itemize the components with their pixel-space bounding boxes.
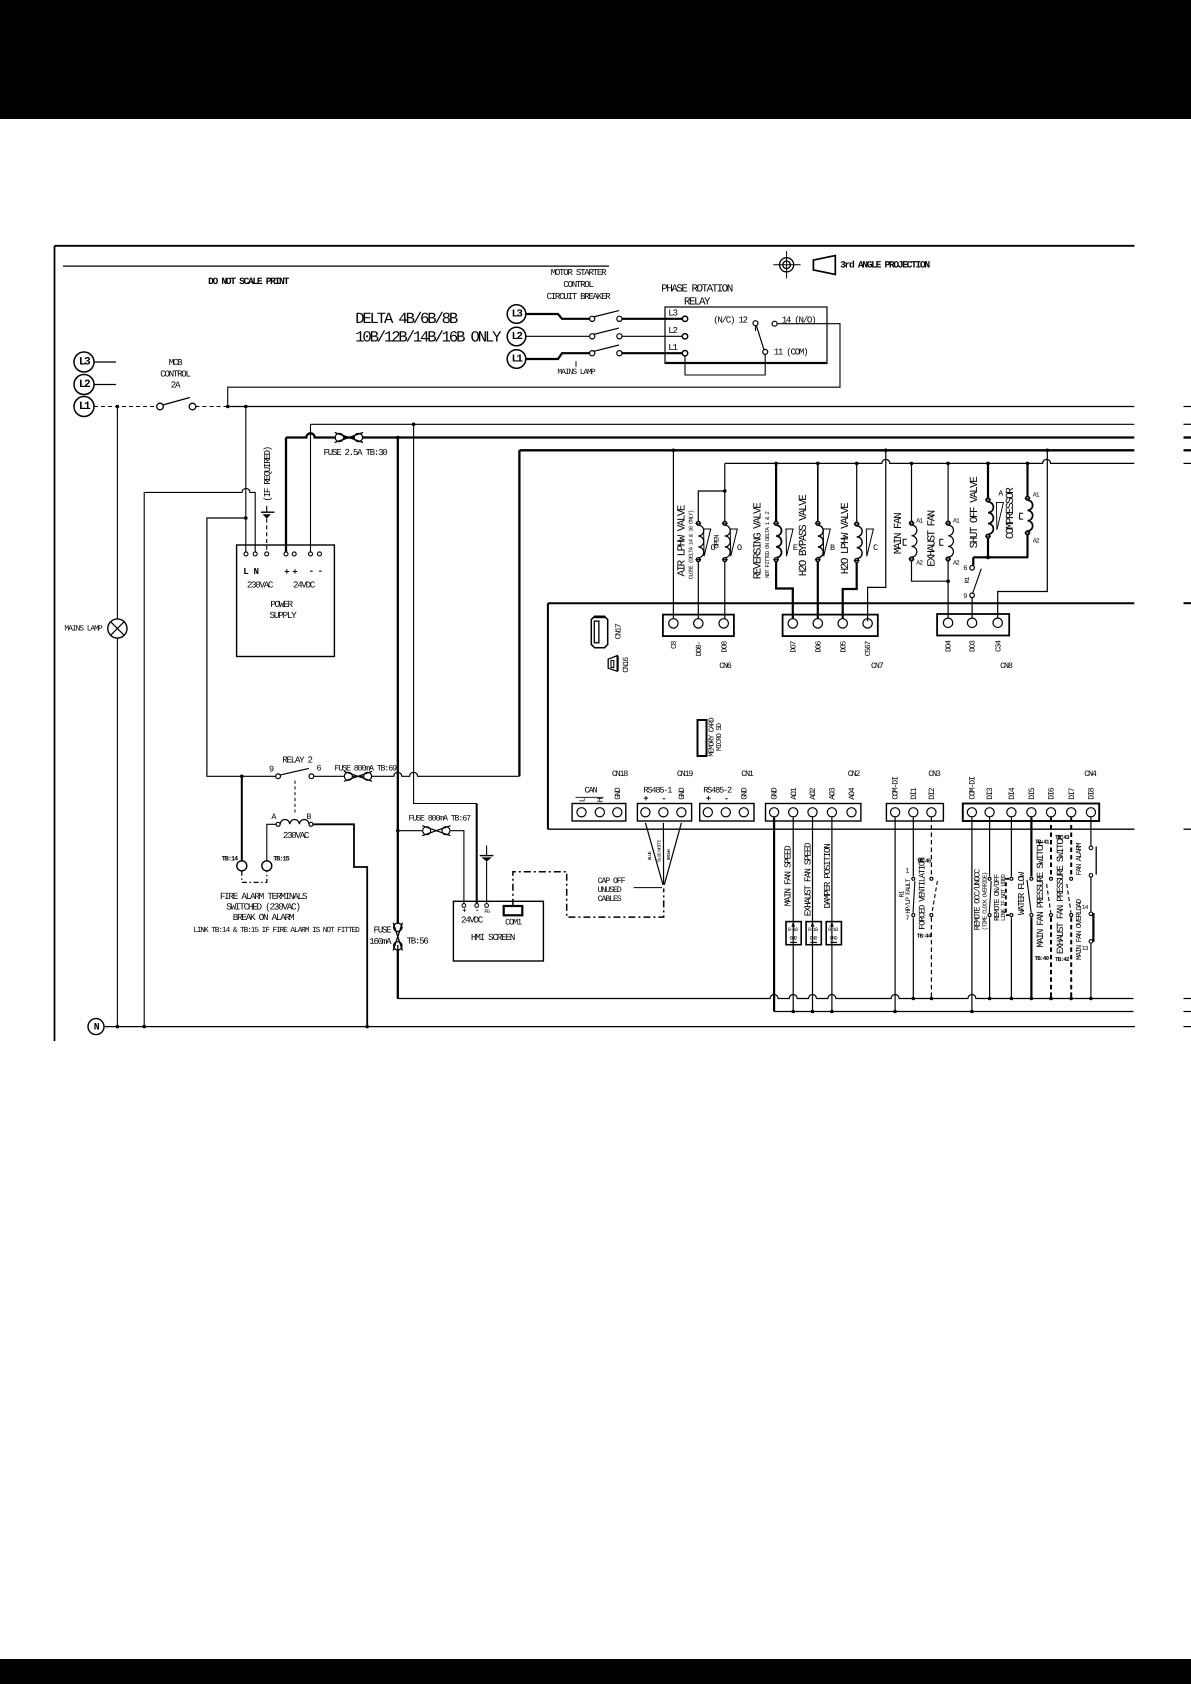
- svg-text:3rd ANGLE PROJECTION: 3rd ANGLE PROJECTION: [840, 259, 930, 270]
- svg-text:230VAC: 230VAC: [247, 580, 274, 591]
- svg-text:COM-DI: COM-DI: [969, 776, 978, 800]
- svg-text:CN19: CN19: [677, 770, 694, 779]
- terminal TB:15: [262, 861, 272, 871]
- terminal TB:14: [237, 861, 247, 871]
- coil REVERSING VALVE: [775, 463, 777, 521]
- wire AO2: [812, 818, 814, 1012]
- svg-text:A2: A2: [1033, 538, 1040, 545]
- svg-text:COM1: COM1: [505, 918, 522, 928]
- svg-text:DO8-: DO8-: [695, 641, 704, 656]
- svg-text:CONTROL: CONTROL: [160, 369, 190, 380]
- svg-text:+: +: [284, 567, 290, 578]
- svg-text:EXHAUST FAN PRESSURE SWITCH: EXHAUST FAN PRESSURE SWITCH: [1055, 835, 1066, 954]
- coil SHUT OFF VALVE: [987, 463, 989, 497]
- svg-text:CN4: CN4: [1084, 770, 1097, 779]
- svg-text:COMPRESSOR: COMPRESSOR: [1005, 487, 1017, 539]
- svg-text:230VAC: 230VAC: [283, 830, 310, 841]
- svg-text:A: A: [998, 489, 1003, 498]
- HMI terminals: [462, 904, 466, 908]
- switch MCB CONTROL: [157, 403, 164, 410]
- svg-text:GND: GND: [830, 936, 838, 942]
- svg-text:DAMPER POSITION: DAMPER POSITION: [822, 844, 833, 909]
- drawing frame border: [55, 245, 1135, 247]
- svg-text:H2O LPHW VALVE: H2O LPHW VALVE: [840, 503, 852, 574]
- svg-text:11 (COM): 11 (COM): [774, 347, 808, 358]
- svg-text:CN17: CN17: [614, 623, 623, 639]
- svg-text:H: H: [597, 797, 606, 802]
- svg-text:UNUSED: UNUSED: [598, 886, 622, 895]
- switch DI2 forced ventilation: [930, 818, 932, 877]
- svg-text:DI5: DI5: [1028, 787, 1037, 800]
- svg-text:MAINS LAMP: MAINS LAMP: [557, 368, 595, 377]
- HMI COM1 port: [504, 906, 523, 915]
- inner title line: [63, 265, 609, 267]
- svg-text:C: C: [873, 543, 878, 553]
- terminal block CN8: [937, 614, 1009, 636]
- wire CN3 COM-DI: [894, 818, 896, 1012]
- flag O close: [704, 529, 711, 556]
- scale box AO2 0-10/GND: [806, 922, 821, 945]
- svg-text:C8: C8: [670, 640, 679, 649]
- wire R1 to DO3: [971, 598, 973, 622]
- wire exhaust fan to DO4: [947, 561, 949, 621]
- node L1 (left): [74, 397, 94, 417]
- coil MAIN FAN contactor: [911, 463, 913, 521]
- switch DI6 main fan pressure: [1050, 818, 1052, 877]
- L1 bus: [228, 406, 1135, 408]
- breaker pole L1: [590, 351, 595, 356]
- valve return line: [725, 459, 1135, 463]
- PSU terminal N: [253, 552, 257, 556]
- svg-text:TB:56: TB:56: [407, 936, 429, 947]
- svg-text:24VDC: 24VDC: [461, 914, 484, 925]
- svg-text:TB:15: TB:15: [273, 856, 289, 864]
- wire coil B to N: [313, 824, 367, 1026]
- svg-text:SWITCHED (230VAC): SWITCHED (230VAC): [226, 902, 300, 913]
- PSU terminal plus1: [284, 552, 288, 556]
- controller board left edge: [547, 603, 549, 829]
- relay terminal L1: [682, 351, 687, 356]
- switch DI3 remote occ/unocc: [989, 818, 991, 877]
- svg-text:CONTROL: CONTROL: [563, 279, 593, 290]
- relay terminal L2: [682, 334, 687, 339]
- svg-text:GND: GND: [810, 936, 818, 942]
- flag B: [823, 529, 830, 556]
- svg-text:B: B: [830, 543, 835, 553]
- svg-text:L3: L3: [512, 308, 523, 320]
- wire main fan A2: [912, 561, 949, 581]
- coil COMPRESSOR: [1026, 463, 1028, 496]
- svg-text:MCB: MCB: [169, 357, 183, 368]
- wire AO3: [831, 818, 833, 1012]
- svg-text:L: L: [243, 566, 248, 577]
- svg-text:10B/12B/14B/16B ONLY: 10B/12B/14B/16B ONLY: [355, 329, 502, 347]
- svg-text:DO6: DO6: [814, 640, 823, 652]
- svg-text:L2: L2: [512, 331, 523, 343]
- svg-text:(IF REQUIRED): (IF REQUIRED): [262, 447, 273, 502]
- HMI screen box: [453, 901, 543, 961]
- terminal block CN19: [637, 804, 691, 822]
- HMI earth symbol: [486, 846, 488, 856]
- svg-text:HP/LP FAULT: HP/LP FAULT: [905, 878, 913, 913]
- svg-text:EXHAUST FAN: EXHAUST FAN: [927, 510, 939, 566]
- PSU terminal plus2: [292, 552, 296, 556]
- svg-text:L2: L2: [668, 325, 677, 336]
- svg-text:DO4: DO4: [945, 640, 954, 652]
- svg-text:BROWN: BROWN: [666, 849, 672, 861]
- svg-text:REVERSING VALVE: REVERSING VALVE: [753, 503, 765, 579]
- svg-text:DO NOT SCALE PRINT: DO NOT SCALE PRINT: [208, 276, 289, 287]
- svg-text:A1: A1: [1033, 492, 1040, 499]
- wire L3 to breaker: [526, 314, 590, 319]
- coil AIR LPHW VALVE close: [696, 521, 700, 525]
- svg-text:AO1: AO1: [790, 787, 799, 800]
- svg-text:B: B: [306, 813, 311, 822]
- wire breaker to relay L2: [622, 335, 682, 337]
- wire PSU minus riser: [310, 424, 312, 552]
- PSU terminal L: [244, 552, 248, 556]
- svg-text:-: -: [724, 794, 728, 804]
- svg-text:FIRE ALARM TERMINALS: FIRE ALARM TERMINALS: [220, 891, 308, 902]
- MAINS LAMP label (breaker): [575, 361, 577, 367]
- wire 230V L feed to relay2: [207, 518, 276, 776]
- wire CN4 COM-DI: [971, 818, 973, 1012]
- relay 2 contact 6: [309, 774, 314, 779]
- scale box AO3 0-10/GND: [826, 922, 841, 945]
- wire fuse67 to HMI plus: [398, 830, 422, 832]
- svg-text:WATER FLOW: WATER FLOW: [1016, 871, 1027, 915]
- wire MCB to L1 bus: [196, 406, 228, 408]
- svg-text:L3: L3: [668, 308, 677, 319]
- svg-text:DI3: DI3: [986, 787, 995, 800]
- wire PSU plus riser: [285, 438, 287, 552]
- svg-text:(TIME CLOCK OVERRIDE): (TIME CLOCK OVERRIDE): [981, 872, 988, 930]
- wire L2 stub: [94, 384, 116, 386]
- svg-text:BLUE/WHITE: BLUE/WHITE: [657, 839, 663, 861]
- PSU terminal minus2: [318, 552, 322, 556]
- svg-text:LINK TB:14 & TB:15 IF FIRE ALA: LINK TB:14 & TB:15 IF FIRE ALARM IS NOT …: [193, 926, 360, 935]
- svg-text:-: -: [309, 566, 314, 577]
- svg-text:R1: R1: [964, 577, 971, 584]
- svg-text:DI7: DI7: [1068, 787, 1077, 800]
- svg-text:GND: GND: [771, 787, 780, 800]
- svg-text:CN1: CN1: [741, 770, 754, 779]
- svg-text:LINK IF NOT USED: LINK IF NOT USED: [1000, 874, 1007, 921]
- fuse FUSE 2.5A TB:30: [335, 433, 343, 441]
- top black banner: [0, 0, 1191, 119]
- svg-text:CN3: CN3: [928, 770, 941, 779]
- svg-text:CN18: CN18: [612, 770, 629, 779]
- svg-text:A1: A1: [953, 517, 960, 524]
- svg-text:H2O BYPASS VALVE: H2O BYPASS VALVE: [798, 495, 810, 577]
- svg-text:C567: C567: [864, 640, 873, 656]
- svg-text:GND: GND: [790, 936, 798, 942]
- svg-text:BLUE: BLUE: [647, 851, 653, 860]
- svg-text:A1: A1: [916, 517, 923, 524]
- svg-text:L1: L1: [512, 353, 523, 365]
- svg-text:SHUT OFF VALVE: SHUT OFF VALVE: [969, 477, 981, 548]
- svg-text:-: -: [661, 794, 665, 804]
- wire fuse69: [314, 772, 520, 776]
- node L2 (breaker): [507, 327, 526, 346]
- svg-text:L2: L2: [79, 379, 91, 391]
- svg-text:MICRO SD: MICRO SD: [716, 723, 724, 751]
- svg-text:GND: GND: [678, 787, 687, 800]
- memory card slot: [698, 720, 707, 756]
- wire C8: [672, 450, 674, 621]
- svg-text:CN7: CN7: [871, 662, 884, 671]
- wire 230V fused drop: [397, 438, 399, 924]
- svg-text:7: 7: [905, 915, 909, 923]
- svg-text:CLOSE (DELTA 14 & 16 ONLY): CLOSE (DELTA 14 & 16 ONLY): [687, 510, 694, 579]
- svg-text:EXHAUST FAN SPEED: EXHAUST FAN SPEED: [802, 842, 813, 916]
- svg-text:14: 14: [1082, 904, 1089, 911]
- svg-text:TB:14: TB:14: [222, 856, 238, 864]
- 24V- bus: [311, 423, 1135, 425]
- svg-text:BREAK ON ALARM: BREAK ON ALARM: [233, 912, 295, 923]
- DI common bus line1: [398, 995, 1133, 999]
- svg-text:O: O: [737, 543, 742, 553]
- svg-text:CIRCUIT BREAKER: CIRCUIT BREAKER: [547, 291, 612, 302]
- bottom black banner: [0, 1659, 1191, 1684]
- mains lamp wire upper: [116, 407, 118, 619]
- svg-text:FUSE 2.5A TB:30: FUSE 2.5A TB:30: [324, 447, 388, 458]
- svg-text:DO7: DO7: [789, 640, 798, 652]
- wire to DI common line1: [397, 945, 399, 999]
- wire 24V- to HMI minus: [414, 424, 477, 803]
- svg-text:CN16: CN16: [622, 657, 631, 673]
- COM1 capped cable dash-dot: [513, 872, 664, 917]
- switch R1: [970, 566, 975, 571]
- svg-text:OPEN: OPEN: [714, 535, 722, 549]
- svg-text:TB:40: TB:40: [1035, 955, 1050, 962]
- wire TB14 drop: [241, 776, 243, 861]
- svg-text:13: 13: [1082, 945, 1089, 952]
- wire relay N/O output: [228, 324, 840, 407]
- svg-text:MAIN FAN PRESSURE SWITCH: MAIN FAN PRESSURE SWITCH: [1035, 842, 1046, 948]
- switch DI1 HP/LP fault R1: [912, 818, 914, 877]
- fuse FUSE 800mA TB:69: [344, 772, 352, 780]
- wire C567: [868, 450, 886, 621]
- node L2 (left): [74, 375, 94, 395]
- flag E: [786, 529, 793, 556]
- svg-text:GND: GND: [740, 787, 749, 800]
- wire L1 to breaker: [526, 353, 590, 359]
- svg-text:FG: FG: [484, 908, 490, 915]
- svg-text:FORCED VENTILATION: FORCED VENTILATION: [918, 857, 928, 929]
- node L3 (left): [74, 352, 94, 372]
- relay 2 mechanical link: [294, 781, 296, 813]
- right margin continuation ticks: [1184, 406, 1191, 408]
- wire C34: [998, 450, 1048, 621]
- mains lamp wire lower: [116, 638, 118, 1027]
- svg-text:DO3: DO3: [969, 640, 978, 652]
- relay 2 switch arm: [280, 768, 309, 775]
- datum target symbol: [780, 258, 794, 272]
- svg-text:9: 9: [269, 765, 274, 775]
- valve feed bus: [519, 449, 1134, 451]
- svg-text:CN2: CN2: [848, 770, 861, 779]
- svg-text:MAIN FAN SPEED: MAIN FAN SPEED: [783, 845, 794, 906]
- wire breaker to relay L3: [622, 318, 682, 320]
- svg-text:L3: L3: [79, 356, 91, 368]
- connector CN17 (USB A): [591, 616, 607, 647]
- coil H2O BYPASS VALVE: [817, 463, 819, 521]
- svg-text:C34: C34: [994, 640, 1003, 652]
- node L1 (breaker): [507, 350, 526, 369]
- svg-text:TB:43: TB:43: [1055, 834, 1070, 841]
- svg-text:N: N: [253, 566, 258, 577]
- svg-text:AO3: AO3: [829, 787, 838, 800]
- svg-text:160mA: 160mA: [369, 936, 392, 947]
- breaker pole L2: [590, 334, 595, 339]
- terminal block CN2: [766, 804, 861, 822]
- svg-text:CN8: CN8: [1000, 662, 1013, 671]
- svg-text:2A: 2A: [171, 380, 181, 391]
- controller board top edge: [548, 602, 1134, 604]
- svg-text:DO8: DO8: [720, 640, 729, 652]
- phase rotation relay box: [665, 307, 827, 364]
- analog common bus line2: [774, 1011, 1133, 1013]
- relay 2 coil 230VAC: [276, 822, 280, 826]
- svg-text:24VDC: 24VDC: [293, 580, 316, 591]
- terminal block CN18: [572, 804, 626, 822]
- terminal block CN7: [783, 615, 878, 637]
- svg-text:DI1: DI1: [910, 787, 919, 800]
- coil H2O LPHW VALVE: [856, 463, 858, 522]
- power supply box: [237, 545, 335, 657]
- CN19 cable fan-out: [645, 823, 663, 885]
- svg-text:9: 9: [963, 593, 967, 601]
- wire GND analog: [773, 818, 775, 1012]
- svg-text:0-10: 0-10: [808, 927, 818, 933]
- mains lamp: [108, 619, 127, 638]
- svg-text:TB:41: TB:41: [1035, 839, 1050, 846]
- terminal block CN6: [663, 615, 734, 637]
- wire L3 stub: [94, 361, 116, 363]
- connector CN16 (mini USB): [608, 656, 617, 672]
- PSU terminal earth: [265, 552, 269, 556]
- svg-text:DI6: DI6: [1048, 787, 1057, 800]
- svg-text:CN6: CN6: [719, 662, 732, 671]
- wire AO1: [792, 818, 794, 1012]
- svg-text:FUSE 800mA TB:67: FUSE 800mA TB:67: [409, 815, 472, 824]
- svg-text:TB:44: TB:44: [917, 933, 932, 940]
- svg-text:CAP OFF: CAP OFF: [598, 877, 626, 886]
- coil AIR LPHW VALVE open: [723, 521, 727, 525]
- 3rd angle projection cone symbol: [813, 256, 835, 275]
- switch DI5 water flow: [1030, 818, 1032, 877]
- N bus: [104, 1026, 1135, 1028]
- thick valve feed riser: [518, 450, 520, 776]
- svg-text:FUSE 800mA TB:69: FUSE 800mA TB:69: [335, 764, 398, 773]
- wire TB15 to coil A: [267, 824, 276, 861]
- coil EXHAUST FAN contactor: [947, 463, 949, 521]
- svg-text:FAN ALARM: FAN ALARM: [1075, 842, 1084, 875]
- svg-text:L1: L1: [79, 401, 91, 413]
- svg-text:6: 6: [317, 764, 322, 774]
- svg-text:(N/C) 12: (N/C) 12: [713, 314, 747, 325]
- node L3 (breaker): [507, 305, 526, 324]
- svg-text:RS485-1: RS485-1: [644, 786, 673, 796]
- svg-text:MAIN FAN: MAIN FAN: [893, 513, 905, 554]
- switch DI8 fan alarm: [1090, 818, 1092, 846]
- svg-text:-: -: [318, 566, 323, 577]
- wire L1 dashed to MCB: [94, 406, 157, 408]
- flag O open: [730, 529, 737, 556]
- svg-text:CAN: CAN: [585, 786, 598, 796]
- svg-text:A: A: [271, 813, 276, 822]
- fuse FUSE 160mA TB:56: [394, 923, 402, 931]
- svg-text:0-10: 0-10: [788, 927, 798, 933]
- svg-text:DELTA 4B/6B/8B: DELTA 4B/6B/8B: [355, 310, 458, 328]
- svg-text:AO2: AO2: [809, 787, 818, 800]
- terminal block CN3: [886, 804, 943, 822]
- svg-text:DI2: DI2: [928, 787, 937, 800]
- svg-text:POWER: POWER: [270, 599, 293, 610]
- controller board bottom edge: [548, 828, 1135, 830]
- svg-text:COM-DI: COM-DI: [892, 776, 901, 800]
- scale box AO1 0-10/GND: [786, 922, 801, 945]
- relay terminal L3: [682, 316, 687, 321]
- relay 2 contact 9: [276, 774, 281, 779]
- N node: [88, 1019, 104, 1035]
- svg-text:PHASE ROTATION: PHASE ROTATION: [661, 284, 732, 296]
- svg-text:FUSE: FUSE: [374, 925, 392, 936]
- svg-text:L1: L1: [668, 342, 678, 353]
- svg-text:DI4: DI4: [1008, 787, 1017, 800]
- switch main fan overload: [1089, 912, 1093, 916]
- flag C: [866, 529, 873, 556]
- svg-text:1: 1: [905, 868, 909, 876]
- wire shutoff-compressor link: [973, 556, 1028, 558]
- svg-text:RELAY 2: RELAY 2: [282, 755, 312, 766]
- svg-text:DI8: DI8: [1088, 787, 1097, 800]
- svg-text:AO4: AO4: [848, 787, 857, 800]
- wire PSU N to N bus: [144, 488, 255, 1026]
- wire breaker to relay L1: [622, 352, 682, 354]
- svg-text:A2: A2: [916, 559, 923, 566]
- svg-text:TB:42: TB:42: [1055, 956, 1070, 963]
- svg-text:MAINS LAMP: MAINS LAMP: [64, 624, 102, 633]
- svg-text:L: L: [578, 797, 587, 802]
- svg-text:CABLES: CABLES: [598, 895, 622, 904]
- fuse FUSE 800mA TB:67: [423, 827, 431, 835]
- terminal block CN4: [963, 804, 1099, 822]
- wire L1 to PSU L: [245, 407, 247, 552]
- svg-text:GND: GND: [614, 787, 623, 800]
- svg-text:MOTOR STARTER: MOTOR STARTER: [551, 267, 607, 278]
- svg-text:0-10: 0-10: [828, 927, 838, 933]
- wire L2 to breaker: [526, 335, 590, 337]
- link if not used dashes: [1006, 879, 1009, 915]
- 24V+ bus: [286, 433, 1134, 437]
- relay switch arm: [756, 326, 764, 350]
- svg-text:SUPPLY: SUPPLY: [270, 610, 298, 621]
- air lphw valve feed: [724, 463, 726, 521]
- switch DI4 remote on/off: [1010, 818, 1012, 877]
- svg-text:6: 6: [963, 565, 967, 573]
- switch DI7 exhaust fan pressure: [1070, 818, 1072, 877]
- terminal block CN1: [700, 804, 754, 822]
- PSU terminal minus1: [309, 552, 313, 556]
- svg-text:HMI SCREEN: HMI SCREEN: [471, 932, 515, 943]
- svg-text:A2: A2: [953, 559, 960, 566]
- wire relay L1 to COM: [685, 354, 765, 375]
- breaker pole L3: [590, 316, 595, 321]
- junction mains lamp tap: [116, 405, 120, 409]
- fire alarm link dashes: [242, 871, 267, 883]
